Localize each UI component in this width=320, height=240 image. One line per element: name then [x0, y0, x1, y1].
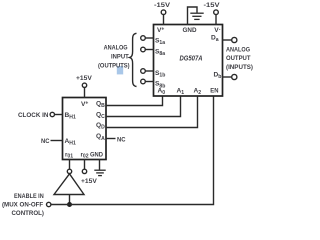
Db output terminal [232, 74, 237, 79]
S8b input terminal [141, 79, 146, 84]
svg-text:CONTROL): CONTROL) [12, 210, 44, 217]
svg-text:(MUX ON-OFF: (MUX ON-OFF [2, 201, 43, 208]
earth ground symbol at U2 GND [190, 13, 203, 19]
svg-text:Db: Db [214, 71, 222, 80]
svg-text:+15V: +15V [76, 75, 92, 82]
S1a input terminal [141, 36, 146, 41]
+15V supply terminal for U1 [82, 83, 86, 87]
wire r02 to +15V terminal [84, 159, 86, 169]
svg-text:BH1: BH1 [65, 112, 76, 121]
svg-text:ANALOG: ANALOG [226, 46, 250, 53]
svg-text:QA: QA [96, 133, 105, 142]
IC U2 DG507A body [154, 25, 223, 97]
wire S1a [145, 37, 154, 39]
Da output terminal [232, 37, 237, 42]
svg-text:AH1: AH1 [65, 138, 76, 147]
svg-text:V+: V+ [81, 101, 88, 109]
svg-text:+15V: +15V [81, 178, 97, 185]
svg-text:EN: EN [210, 88, 218, 95]
svg-text:ENABLE IN: ENABLE IN [14, 193, 44, 200]
wire QA NC stub [106, 138, 116, 140]
wire QC to mux A1 [106, 96, 181, 117]
svg-text:INPUT: INPUT [111, 54, 129, 61]
wire U1 GND down [99, 159, 101, 170]
svg-text:r02: r02 [81, 152, 89, 160]
svg-text:DG507A: DG507A [180, 56, 203, 63]
wire NC stub to AH1 [51, 140, 64, 142]
svg-text:A1: A1 [177, 88, 185, 97]
svg-text:-15V: -15V [154, 2, 171, 9]
wire CLOCK IN to BH1 [55, 114, 64, 116]
svg-text:V+: V+ [157, 27, 164, 35]
inverter U2 output bubble [67, 169, 71, 173]
label ENABLE IN (MUX ON-OFF CONTROL) [2, 193, 44, 217]
inverter U2 triangle [54, 174, 84, 195]
label ANALOG INPUT (OUTPUTS) [98, 45, 130, 70]
label ANALOG OUTPUT (INPUTS) [226, 46, 253, 70]
wire Da to output terminal [222, 39, 232, 41]
wire U2 V- to -15V terminal [215, 15, 217, 26]
wire U1 V+ to +15V terminal [84, 88, 86, 99]
svg-text:(OUTPUTS): (OUTPUTS) [98, 63, 130, 70]
svg-text:NC: NC [117, 137, 126, 144]
selection artifact square [117, 66, 123, 74]
-15V terminal at U2 V- [214, 10, 219, 15]
svg-text:CLOCK IN: CLOCK IN [18, 112, 48, 119]
svg-text:QD: QD [96, 122, 105, 131]
svg-text:Da: Da [211, 34, 219, 43]
+15V pull-up terminal at r02 [82, 169, 86, 173]
svg-text:(INPUTS): (INPUTS) [226, 64, 253, 71]
-15V terminal at U2 V+ [161, 10, 166, 15]
svg-text:OUTPUT: OUTPUT [226, 55, 251, 62]
svg-text:QC: QC [96, 112, 105, 121]
svg-text:r01: r01 [65, 152, 73, 160]
svg-text:V-: V- [214, 27, 220, 35]
svg-text:S1a: S1a [155, 38, 165, 47]
svg-text:NC: NC [41, 138, 50, 145]
svg-text:ANALOG: ANALOG [104, 45, 128, 52]
svg-text:QB: QB [96, 100, 105, 109]
CLOCK IN terminal [50, 112, 54, 116]
wire Db to output terminal [222, 76, 232, 78]
svg-text:S8a: S8a [155, 49, 165, 58]
svg-text:-15V: -15V [204, 2, 221, 9]
wire S8b [145, 81, 154, 83]
svg-text:GND: GND [183, 27, 197, 34]
junction dot at enable node [67, 202, 72, 207]
wire inverter input stem [69, 195, 71, 205]
wire U2 GND to earth [188, 7, 198, 25]
wire U2 V+ to -15V terminal [163, 15, 165, 26]
wire QD to mux A2 [106, 96, 198, 128]
svg-text:S1b: S1b [155, 70, 165, 79]
brace for analog inputs [130, 33, 137, 86]
wire QB to mux A0 [106, 96, 163, 106]
IC U1 binary counter body [63, 98, 107, 160]
wire S1b [145, 70, 154, 72]
wire enable bus to EN pin [51, 96, 214, 205]
svg-text:GND: GND [90, 152, 104, 159]
svg-text:A2: A2 [194, 88, 202, 97]
wire S8a [145, 49, 154, 51]
ENABLE IN terminal [47, 202, 51, 206]
wire r01 to inverter output [69, 159, 71, 169]
ground symbol at U1 GND [94, 170, 105, 175]
S1b input terminal [141, 69, 146, 74]
S8a input terminal [141, 47, 146, 52]
